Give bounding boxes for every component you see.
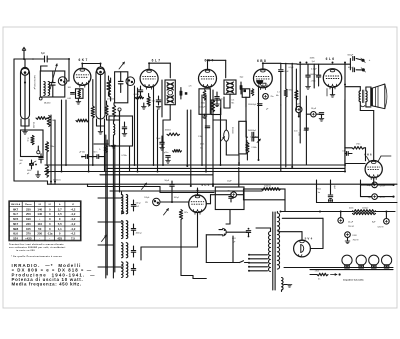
IF transformer MF1	[165, 80, 175, 105]
svg-text:0.7Mn: 0.7Mn	[122, 155, 127, 157]
svg-text:-4,2: -4,2	[70, 217, 75, 221]
label 1Mn rot	[298, 132, 300, 136]
loop 2000ohm	[244, 185, 286, 212]
svg-text:3: 3	[111, 86, 112, 88]
wire plate rail 6C5	[206, 195, 243, 204]
svg-text:Tensioni fra i vari elettrodi: Tensioni fra i vari elettrodi e massa ri…	[9, 243, 64, 246]
svg-text:6 K 7: 6 K 7	[78, 58, 87, 62]
svg-text:5n: 5n	[318, 279, 320, 281]
wire MF1 bottom stubs	[162, 80, 170, 165]
volume pot	[221, 127, 233, 142]
svg-text:0.5: 0.5	[232, 99, 235, 101]
svg-text:147n: 147n	[184, 212, 188, 214]
wire det bus	[281, 63, 297, 167]
switch arrow 6C5	[164, 209, 169, 216]
svg-text:0.1µF: 0.1µF	[283, 71, 289, 73]
top right cap 4uF	[367, 182, 386, 188]
svg-text:105: 105	[26, 227, 31, 231]
svg-text:24 µF: 24 µF	[348, 221, 354, 223]
svg-text:50: 50	[38, 227, 42, 231]
cap C15 padder	[131, 200, 141, 211]
svg-text:15n: 15n	[228, 191, 231, 193]
svg-text:450n: 450n	[200, 144, 204, 146]
transformer heater winding	[282, 278, 292, 292]
svg-text:CA.150-1500 µF: CA.150-1500 µF	[33, 75, 36, 90]
svg-text:230: 230	[26, 207, 31, 211]
svg-text:6 C 5: 6 C 5	[202, 183, 210, 187]
output transformer T2	[359, 90, 367, 103]
wire mains	[206, 232, 249, 262]
label 670n	[304, 130, 308, 132]
label 250n 1w	[317, 188, 321, 194]
trimmer arrow C3	[119, 62, 125, 69]
svg-text:5Z4: 5Z4	[13, 237, 18, 241]
transformer HT secondary	[277, 212, 279, 270]
cap C20 mains	[246, 228, 250, 238]
resistor R9	[47, 116, 55, 127]
resistor R6 det	[295, 90, 298, 100]
band coil L5	[122, 243, 128, 258]
svg-text:105µ1: 105µ1	[144, 197, 149, 199]
band coil L6	[122, 262, 128, 278]
ground lower left	[36, 171, 41, 177]
svg-text:Placca: Placca	[25, 204, 32, 206]
antenna	[22, 47, 26, 59]
coil MF2 primary	[227, 82, 234, 93]
svg-text:50 n: 50 n	[94, 151, 98, 153]
svg-text:3,7: 3,7	[58, 207, 62, 211]
svg-text:1.1: 1.1	[277, 92, 280, 94]
svg-text:250: 250	[37, 232, 42, 236]
wire C1 to grid cap	[47, 59, 69, 81]
svg-text:6 B 8: 6 B 8	[257, 59, 266, 63]
resistor R20	[76, 119, 89, 122]
cap C6 below V2	[156, 96, 161, 109]
box AVC network	[21, 130, 44, 157]
ground V5	[327, 87, 335, 97]
osc label	[107, 99, 114, 101]
svg-text:5,5: 5,5	[58, 222, 62, 226]
wire bus B+ upper	[45, 164, 345, 166]
resistor R5 AVC 1.1M	[276, 63, 287, 167]
svg-text:in serie su 230: in serie su 230	[16, 250, 35, 252]
svg-text:250: 250	[26, 212, 31, 216]
label 6H6	[364, 153, 372, 157]
svg-text:370: 370	[26, 232, 31, 236]
svg-text:0.05: 0.05	[67, 98, 71, 100]
svg-text:0.1µF: 0.1µF	[289, 67, 295, 69]
tuning gang CV2	[96, 67, 105, 119]
wire gang1 bottom	[21, 114, 29, 134]
wire bus B+ lower	[45, 171, 346, 173]
svg-text:190: 190	[26, 217, 31, 221]
speaker	[371, 84, 387, 109]
arrow lamps feed	[331, 273, 341, 275]
svg-text:1 Mn: 1 Mn	[198, 136, 202, 138]
svg-text:18 µF: 18 µF	[311, 108, 317, 110]
osc tank box L2	[115, 72, 128, 103]
svg-text:6K7: 6K7	[13, 222, 19, 226]
svg-text:750 Vℓ: 750 Vℓ	[348, 225, 354, 228]
svg-text:400n: 400n	[349, 208, 353, 210]
svg-text:15µl: 15µl	[240, 77, 244, 79]
svg-text:6C5: 6C5	[13, 217, 19, 221]
svg-text:150000µ1: 150000µ1	[248, 104, 256, 106]
coil L2	[109, 78, 110, 101]
caps right of MF1	[180, 85, 192, 99]
tube V7 6C5	[189, 183, 210, 214]
labels left of V5	[310, 58, 316, 63]
svg-text:•: •	[39, 217, 40, 221]
trimmer arrow C2	[50, 64, 57, 89]
terminal node tank1	[39, 97, 42, 100]
voltage selector taps	[248, 254, 268, 272]
resistor R7 1Mn	[352, 144, 364, 150]
cap C10 tone	[348, 64, 362, 72]
cap C7 0.1uF	[279, 70, 290, 172]
cap C12b	[30, 160, 34, 169]
wire 6C5 top	[197, 188, 199, 195]
switch contacts	[29, 161, 37, 165]
svg-text:670n: 670n	[304, 130, 308, 132]
electrolytic C24 18uF	[306, 108, 323, 117]
tank L1 box	[40, 71, 65, 97]
cap C5 below V2	[135, 86, 143, 100]
wire bus third	[100, 168, 345, 174]
svg-text:10000n: 10000n	[165, 130, 171, 132]
svg-text:-4,2: -4,2	[70, 222, 75, 226]
wire V4 top cap loop	[263, 63, 281, 69]
svg-text:601µF: 601µF	[348, 67, 354, 69]
coil bank bus	[106, 111, 120, 278]
mid cluster 10000	[156, 130, 181, 164]
resistor R12 2.5M	[246, 142, 257, 152]
svg-text:1 Mn: 1 Mn	[356, 144, 360, 146]
labels det	[289, 67, 295, 92]
wire V2 drops	[154, 86, 158, 172]
svg-text:250n: 250n	[216, 106, 220, 108]
electrolytic C19 1uF	[227, 181, 237, 198]
shield box mid	[239, 121, 247, 154]
cap C13 mid	[205, 100, 219, 128]
cap C18 padder	[131, 264, 135, 275]
osc cap C25	[122, 122, 127, 136]
dial lamp LP2	[356, 255, 366, 268]
band coil L3	[122, 192, 128, 214]
label 150000	[248, 104, 256, 106]
svg-text:500: 500	[20, 160, 23, 162]
coil MF2 secondary	[240, 77, 247, 94]
svg-text:2.5Mn: 2.5Mn	[251, 147, 256, 149]
svg-text:500000: 500000	[231, 127, 233, 135]
cap C16 padder	[131, 224, 142, 235]
svg-text:0.01: 0.01	[294, 131, 298, 133]
mains plug	[219, 228, 226, 236]
svg-text:140: 140	[37, 212, 42, 216]
trimmer C4	[118, 72, 123, 93]
wire gang2 bottom	[97, 114, 105, 172]
wire V5 plate rail	[344, 63, 346, 172]
grid-cap connector V2	[126, 77, 135, 86]
ground V3	[202, 114, 207, 118]
svg-text:Media frequenza: 450 kHz.: Media frequenza: 450 kHz.	[12, 282, 82, 287]
electrolytic C21 24uF	[338, 212, 354, 228]
wire V2 top cap loop	[149, 63, 170, 78]
table tube operating data	[9, 201, 81, 241]
tube V4 6B8	[254, 59, 273, 90]
resistor R19 screen	[91, 106, 94, 118]
resistor R8	[32, 117, 47, 129]
svg-text:680n: 680n	[289, 90, 293, 92]
wire OT down	[360, 102, 373, 161]
resistor R10	[45, 142, 54, 152]
cathode box V3	[199, 89, 210, 115]
svg-text:140 µl: 140 µl	[136, 203, 142, 205]
cap C11 0.1	[342, 150, 348, 155]
wire V1 plate drop	[89, 80, 93, 172]
wire pot connections	[213, 120, 259, 165]
wire 6C5 grid	[160, 191, 189, 203]
svg-text:1 Mn: 1 Mn	[298, 132, 300, 136]
svg-text:5 V 4: 5 V 4	[305, 236, 313, 240]
svg-text:4,5: 4,5	[58, 212, 62, 216]
svg-text:σ151500: σ151500	[107, 99, 114, 101]
cap C9 tone	[348, 55, 362, 65]
svg-text:1,1: 1,1	[58, 227, 62, 231]
caps right V3	[215, 92, 223, 102]
tone box	[215, 187, 244, 210]
svg-text:-: -	[39, 237, 40, 241]
caps mid-left pair	[81, 155, 104, 159]
top right cap 8uF	[368, 194, 386, 200]
svg-text:VALVOLA: VALVOLA	[11, 203, 21, 206]
wire OT top	[345, 87, 371, 91]
svg-text:-4,2: -4,2	[70, 212, 75, 216]
svg-text:µF 50n: µF 50n	[79, 151, 85, 153]
band switch arrow	[102, 235, 107, 242]
wire bank stub	[129, 146, 131, 172]
labels mid-left pair	[79, 144, 108, 153]
svg-text:230: 230	[26, 222, 31, 226]
svg-text:µ10n: µ10n	[164, 152, 168, 154]
svg-text:0.1 µF: 0.1 µF	[311, 69, 317, 71]
svg-text:-: -	[49, 237, 50, 241]
filter resistor R15	[353, 210, 396, 215]
trimmer C2	[51, 71, 56, 97]
cap C12	[39, 154, 43, 163]
svg-text:300n: 300n	[201, 103, 205, 105]
caption IRRADIO	[12, 263, 96, 287]
capacitor C1 6uF	[41, 53, 47, 62]
coil L1 secondary	[48, 82, 49, 96]
svg-text:0.05µF: 0.05µF	[134, 94, 141, 96]
svg-text:665µF: 665µF	[348, 55, 354, 57]
osc wires	[107, 86, 138, 172]
coil MF1 primary	[167, 82, 174, 90]
svg-text:50µF: 50µF	[165, 180, 170, 182]
svg-text:5000: 5000	[27, 170, 31, 172]
svg-text:0.01: 0.01	[232, 238, 236, 240]
tube V1 6K7	[74, 58, 91, 87]
wire V1 top cap to gang2	[82, 64, 100, 68]
svg-text:-4,2: -4,2	[70, 232, 75, 236]
svg-text:6 L 7: 6 L 7	[152, 59, 161, 63]
wire right caps	[361, 180, 395, 198]
svg-text:6 L 6: 6 L 6	[326, 57, 335, 61]
svg-text:6µF: 6µF	[41, 53, 46, 55]
wire 6C5 bottom	[141, 213, 206, 279]
svg-text:25n: 25n	[271, 96, 274, 98]
phono jack PU	[145, 198, 160, 205]
electrolytic C22 8uF	[372, 212, 389, 229]
ground caps V3	[215, 102, 220, 107]
svg-text:500Pn: 500Pn	[311, 74, 316, 76]
svg-text:+425: +425	[25, 237, 32, 241]
trimmer MF1	[168, 90, 173, 95]
dial lamp LP1	[342, 255, 352, 268]
svg-text:10µF: 10µF	[227, 181, 232, 183]
svg-text:lampadine 6,3v-0,25a: lampadine 6,3v-0,25a	[343, 280, 364, 282]
svg-text:0A 460: 0A 460	[44, 102, 51, 105]
resistor R2 below V2	[134, 94, 144, 99]
resistor R13	[179, 210, 188, 220]
svg-text:6B8: 6B8	[13, 227, 19, 231]
node junction AVC	[37, 146, 40, 154]
svg-text:7,5: 7,5	[71, 237, 75, 241]
dial lamp LP3	[369, 255, 379, 268]
svg-text:110: 110	[37, 222, 42, 226]
wire HT top rail	[281, 211, 353, 213]
ground below V2	[141, 103, 146, 109]
svg-text:2000 Ω: 2000 Ω	[264, 185, 271, 188]
svg-text:4000 µl: 4000 µl	[136, 233, 143, 235]
trimmer arrow phono	[142, 183, 147, 190]
band coil L4	[122, 221, 128, 239]
wire MF2 bottom stubs	[224, 94, 230, 108]
caps mid pair	[248, 130, 257, 141]
svg-text:50.000: 50.000	[32, 122, 34, 129]
svg-text:-11a: -11a	[47, 232, 53, 236]
label tank1	[44, 102, 51, 105]
coil bank taps	[98, 198, 122, 267]
labels lower left	[20, 160, 62, 182]
tube V5 6L6	[323, 57, 341, 89]
resistor R22 bank	[99, 146, 107, 153]
wire top rail to V5	[297, 64, 350, 130]
svg-text:150000µ1: 150000µ1	[248, 130, 256, 132]
wire det drop3	[221, 97, 247, 165]
transformer T1 primary	[256, 228, 271, 272]
svg-text:6L6: 6L6	[13, 232, 18, 236]
svg-text:* Su quelle Provvisoriamente: * Su quelle Provvisoriamente è messa	[11, 255, 62, 258]
svg-text:100µ1: 100µ1	[174, 197, 179, 199]
resistor R11	[45, 152, 48, 177]
osc node circle	[118, 108, 121, 121]
grid-cap connector V1	[58, 77, 67, 86]
transformer core	[273, 212, 275, 290]
wire psu left	[317, 180, 398, 203]
cap C14 50uF	[165, 180, 175, 191]
wire 18uF drop	[294, 96, 324, 165]
wire speaker OT	[361, 102, 371, 107]
coil MF1 secondary	[167, 95, 174, 103]
svg-text:170n: 170n	[315, 271, 319, 273]
wire 6H6 connections	[345, 100, 374, 185]
svg-text:15Mn: 15Mn	[310, 58, 315, 60]
svg-text:6K7: 6K7	[13, 207, 19, 211]
tube V2 6L7	[140, 59, 160, 90]
label plus	[369, 59, 371, 62]
svg-text:8 Mℓ: 8 Mℓ	[353, 234, 357, 237]
wire bus heater	[110, 190, 262, 192]
svg-text:-4,2: -4,2	[70, 227, 75, 231]
label 100u1	[144, 197, 179, 199]
svg-text:425: 425	[57, 237, 62, 241]
choke labels	[349, 207, 369, 210]
osc lower box	[109, 116, 133, 157]
table notes	[9, 243, 66, 258]
cathode network V1	[67, 87, 83, 100]
wire mains switch	[226, 168, 239, 263]
tuning gang CV1	[21, 67, 36, 119]
svg-text:525 Vℓ: 525 Vℓ	[378, 225, 384, 228]
electrolytic C23 8uF	[345, 232, 359, 244]
svg-text:Vf: Vf	[72, 204, 74, 206]
wire AVC bus step	[88, 184, 215, 192]
wire V4 drops	[246, 88, 259, 161]
wire lamp bus	[284, 268, 393, 270]
detector cluster below V4	[232, 89, 274, 111]
terminal T1	[361, 58, 365, 62]
wire AVC verticals	[51, 100, 66, 184]
svg-text:Mn: Mn	[276, 95, 279, 97]
svg-text:con voltmetro 20000Ω per volt;: con voltmetro 20000Ω per volt; riscaldat…	[9, 246, 66, 249]
svg-text:0.05µF: 0.05µF	[199, 106, 206, 108]
caps C8 screen	[306, 64, 321, 89]
label -8uF rot	[328, 180, 335, 203]
box R mid	[211, 100, 221, 115]
coil L1 primary	[44, 82, 45, 96]
svg-text:1000µ¹: 1000µ¹	[362, 207, 369, 210]
cap C17 padder	[131, 246, 135, 257]
dial lamp LP4	[382, 255, 392, 268]
svg-text:u7n: u7n	[189, 85, 192, 87]
electrolytic C26	[296, 103, 302, 117]
wire antenna to C1	[24, 58, 44, 60]
wire grid return drops	[187, 110, 191, 186]
tube V8 5Z4	[294, 236, 313, 257]
svg-text:300: 300	[68, 87, 71, 89]
label 1Mn mid	[198, 136, 204, 149]
svg-text:Mn: Mn	[232, 102, 235, 104]
osc coil L2b	[114, 121, 115, 140]
resistor R21	[27, 136, 35, 145]
svg-text:-4,2: -4,2	[70, 207, 75, 211]
svg-text:6L7: 6L7	[13, 212, 18, 216]
label lampadine	[343, 280, 364, 282]
terminal T2	[361, 68, 365, 72]
wire 5Z4 plate	[278, 218, 323, 248]
svg-text:140: 140	[37, 207, 42, 211]
wire left bus	[14, 59, 48, 184]
svg-text:750 Vℓ: 750 Vℓ	[353, 238, 359, 241]
svg-text:250n: 250n	[317, 188, 321, 190]
wire bus AVC right	[48, 183, 398, 185]
resistor R3 below V2	[147, 94, 155, 107]
osc divider R18	[112, 103, 115, 121]
osc divider R17	[105, 101, 108, 120]
resistor R16 170n	[310, 271, 328, 281]
